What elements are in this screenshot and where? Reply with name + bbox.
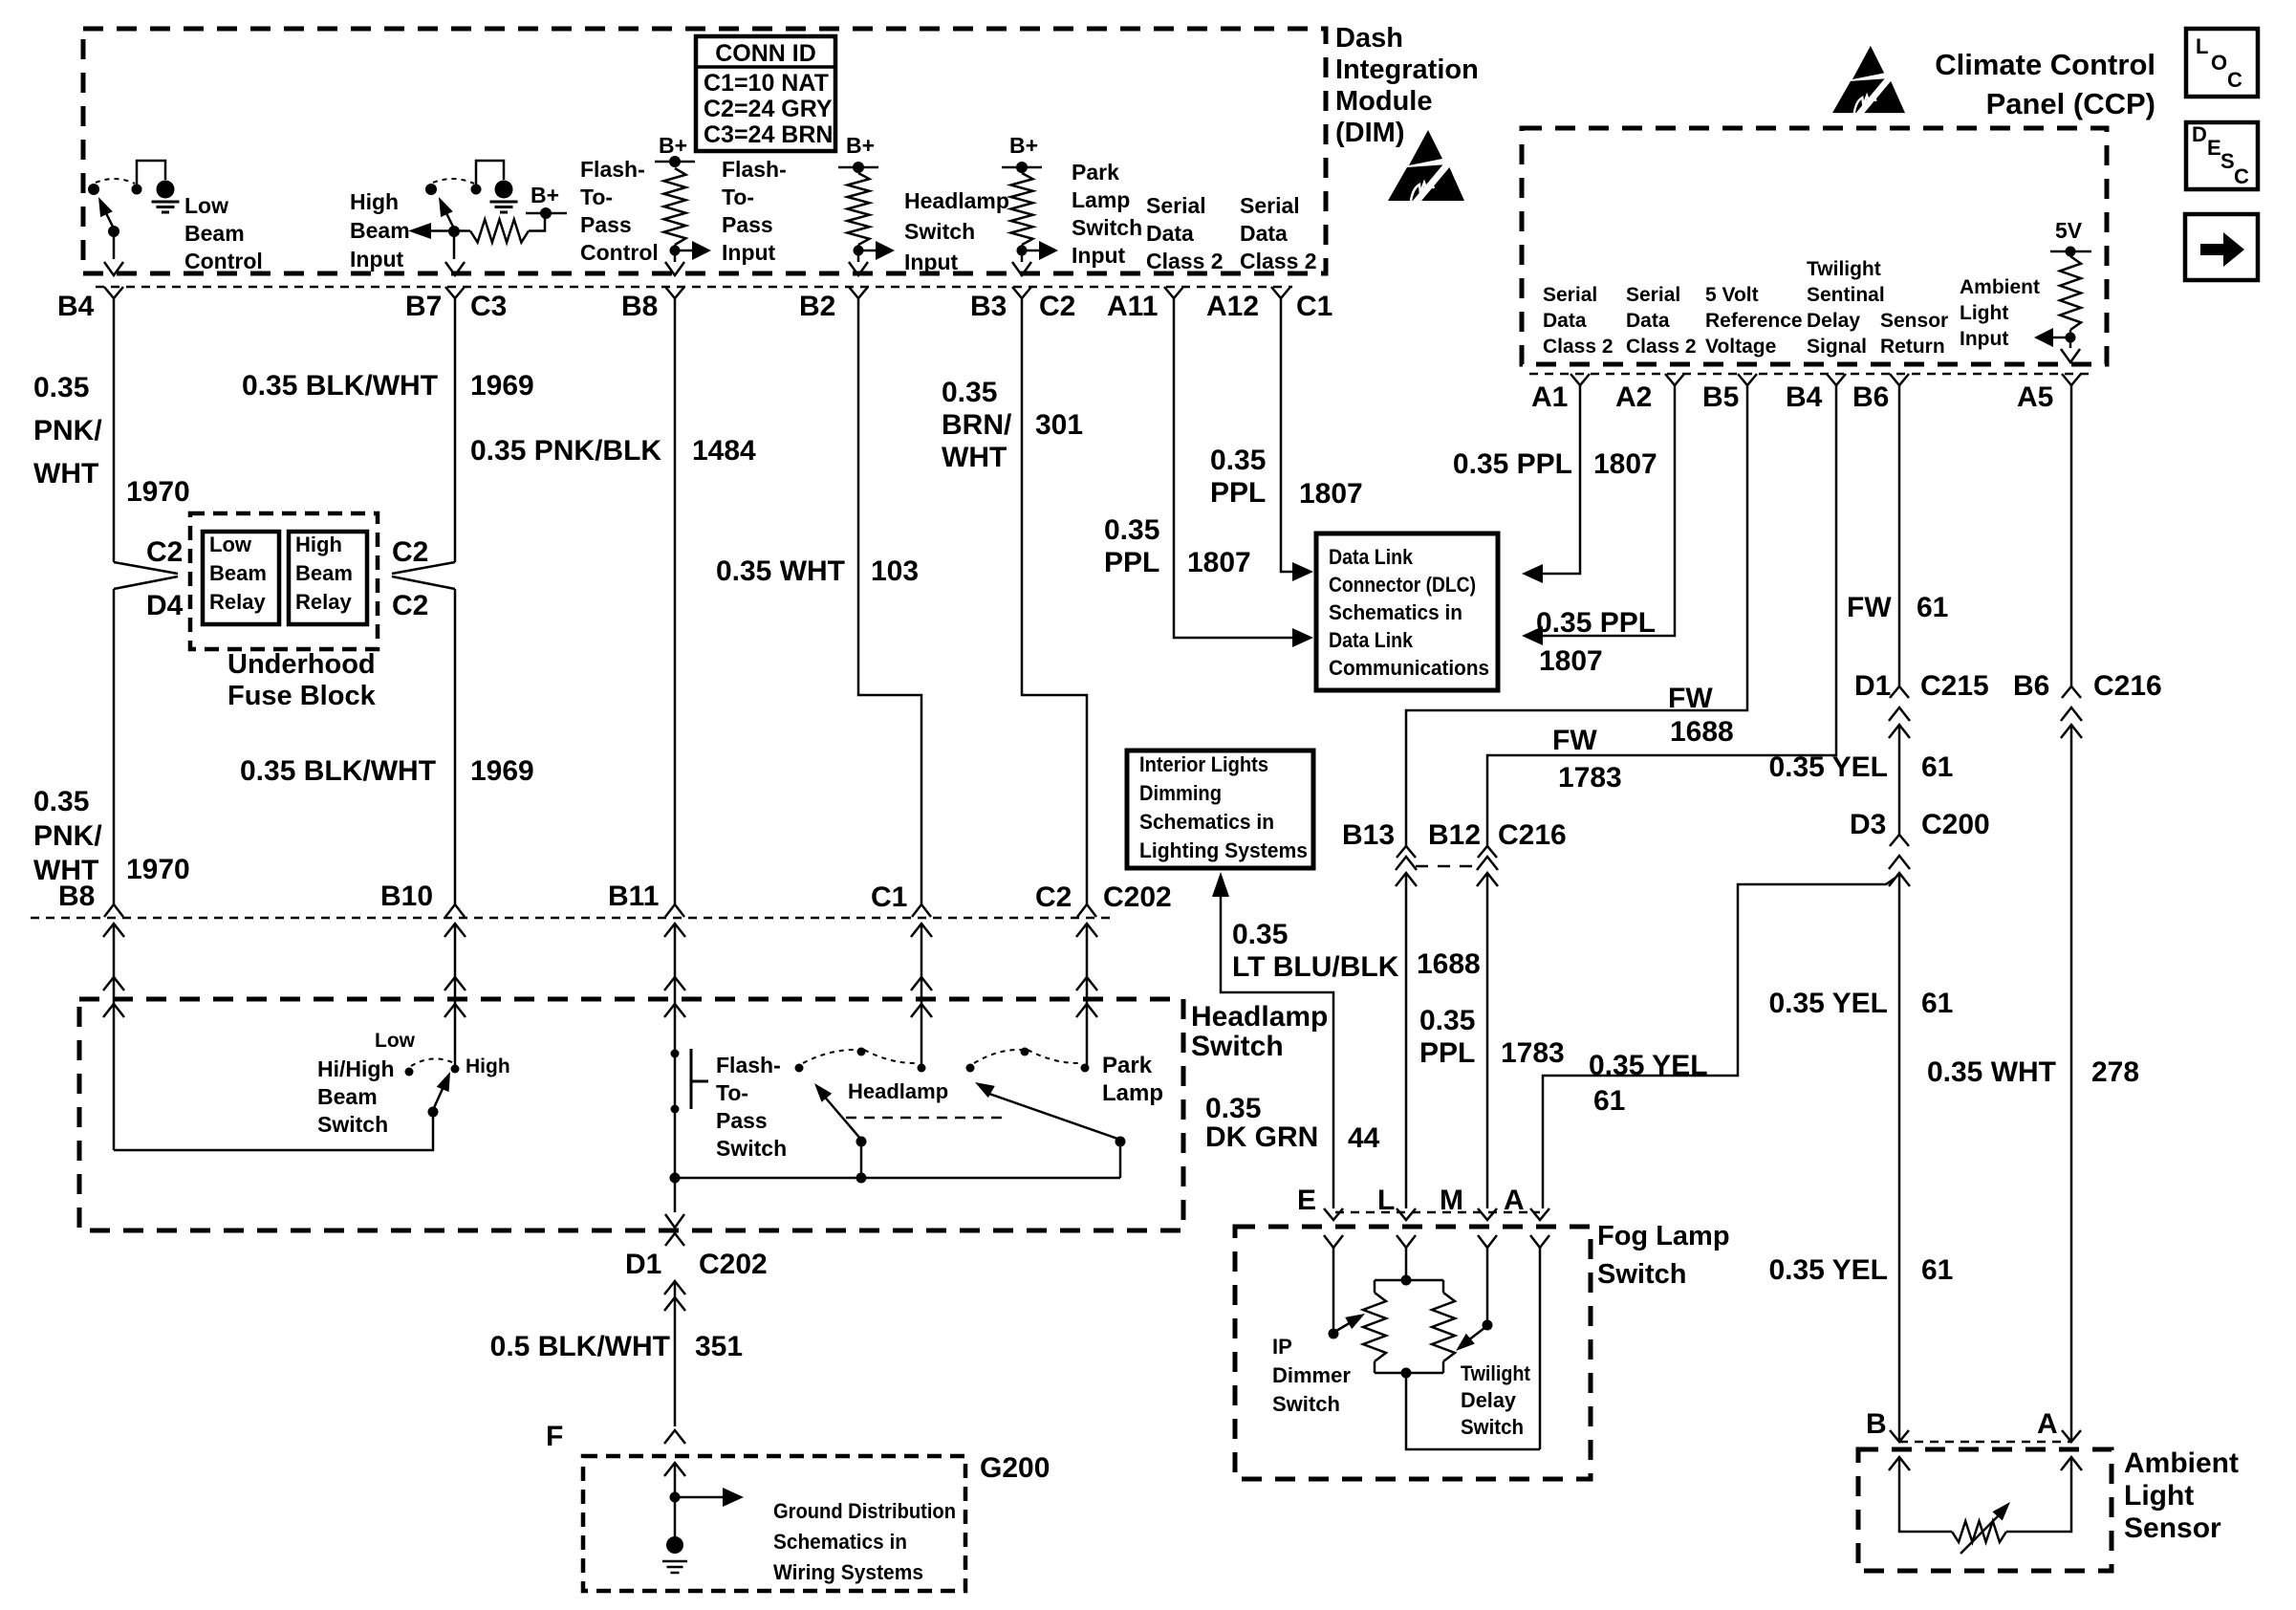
svg-text:Headlamp: Headlamp: [904, 188, 1009, 213]
svg-text:Beam: Beam: [184, 221, 245, 246]
svg-text:0.35 WHT: 0.35 WHT: [1927, 1056, 2056, 1088]
wire L into box: [1405, 1248, 1408, 1280]
high beam ground symbol: [490, 201, 518, 204]
wire fuse block to B10: [454, 589, 457, 904]
hi/high beam switch high contact: [451, 1065, 460, 1074]
svg-text:D3: D3: [1850, 809, 1886, 840]
svg-text:F: F: [546, 1421, 563, 1452]
ground wire inside G200: [664, 1463, 685, 1476]
headlamp switch input junction dot: [854, 246, 864, 256]
svg-text:Low: Low: [184, 193, 228, 218]
headlamp switch output wire to D1: [674, 1178, 677, 1212]
svg-text:BRN/: BRN/: [942, 409, 1012, 441]
svg-text:0.35: 0.35: [1205, 1093, 1261, 1124]
wire A12 to DLC: [1281, 298, 1292, 572]
svg-text:Switch: Switch: [904, 219, 975, 244]
svg-text:Beam: Beam: [295, 561, 353, 585]
hi/high beam switch arm: [433, 1082, 445, 1110]
underhood fuse block dashed box: [190, 513, 378, 649]
svg-text:Delay: Delay: [1461, 1388, 1517, 1412]
park lamp switch input signal arrow: [1022, 250, 1039, 252]
svg-text:B2: B2: [799, 291, 835, 322]
flash-to-pass control wire: [674, 245, 677, 262]
high beam switch left contact: [425, 184, 437, 195]
svg-text:0.35: 0.35: [1104, 514, 1159, 546]
svg-text:Schematics in: Schematics in: [773, 1530, 907, 1554]
ambient sensor pin A connector: [2062, 1430, 2081, 1442]
svg-text:Underhood: Underhood: [227, 649, 376, 680]
svg-text:PPL: PPL: [1419, 1037, 1475, 1069]
high beam switch right contact: [471, 185, 482, 195]
svg-text:G200: G200: [980, 1452, 1050, 1484]
headlamp rotary dashed arc: [803, 1050, 858, 1063]
dimmer network bottom bar: [1375, 1372, 1443, 1375]
svg-text:Dimming: Dimming: [1139, 781, 1222, 805]
park lamp rotary off contact: [966, 1064, 975, 1073]
svg-text:61: 61: [1921, 751, 1953, 783]
CCP pin B6 connector: [1890, 374, 1909, 385]
wire B7 to underhood fuse block: [454, 298, 457, 562]
svg-text:Light: Light: [2124, 1480, 2194, 1512]
svg-text:Beam: Beam: [209, 561, 267, 585]
wire B5 to headlamp switch B13 (FW 1688): [1406, 385, 1747, 846]
svg-text:1484: 1484: [692, 435, 756, 467]
svg-text:B8: B8: [58, 881, 95, 912]
flash-to-pass control pull-up resistor: [664, 168, 686, 245]
ground junction dot G200: [666, 1536, 683, 1554]
svg-text:Beam: Beam: [350, 218, 410, 243]
headlamp switch input B+ bar: [838, 166, 878, 169]
svg-text:Ambient: Ambient: [1960, 276, 2040, 298]
svg-text:Data: Data: [1543, 310, 1587, 332]
svg-text:WHT: WHT: [942, 442, 1007, 473]
svg-text:0.35 YEL: 0.35 YEL: [1768, 988, 1888, 1019]
body connector pin B11 symbol: [665, 904, 684, 917]
svg-text:Low: Low: [209, 533, 252, 556]
svg-text:E: E: [2207, 136, 2221, 160]
svg-text:B6: B6: [2013, 670, 2049, 702]
svg-text:High: High: [295, 533, 342, 556]
svg-text:Beam: Beam: [317, 1084, 378, 1109]
svg-text:Integration: Integration: [1335, 54, 1479, 85]
C216 connector line at headlamp switch: [1416, 865, 1478, 868]
svg-text:Data Link: Data Link: [1329, 628, 1414, 652]
DIM pin B8 connector: [665, 287, 684, 298]
ESD sensitivity symbol (CCP): [1832, 46, 1905, 116]
headlamp switch input arrow into DIM edge: [849, 262, 868, 275]
svg-text:1688: 1688: [1417, 948, 1481, 980]
high beam input left arrow: [431, 229, 454, 232]
headlamp switch input signal arrow: [858, 250, 876, 252]
svg-text:C202: C202: [699, 1249, 768, 1280]
svg-text:Class 2: Class 2: [1240, 249, 1317, 273]
Fog Lamp Switch dashed enclosure: [1235, 1227, 1591, 1479]
hi/high beam switch common bar: [114, 1114, 433, 1150]
svg-text:Fog Lamp: Fog Lamp: [1597, 1221, 1730, 1251]
headlamp rotary support: [860, 1142, 863, 1178]
svg-text:D1: D1: [1854, 670, 1891, 702]
svg-text:Input: Input: [722, 240, 776, 265]
hi/high beam switch pivot dot: [428, 1107, 439, 1118]
svg-text:L: L: [1377, 1185, 1395, 1216]
svg-text:0.35: 0.35: [1419, 1005, 1475, 1036]
park lamp switch input wire: [1021, 245, 1024, 262]
low beam control switch dashed arc: [96, 179, 135, 184]
ambient sensor connector line (fine dashed): [1899, 1441, 2071, 1444]
svg-text:Serial: Serial: [1626, 284, 1680, 306]
svg-text:A5: A5: [2017, 381, 2053, 413]
DIM pin B2 connector: [849, 287, 868, 298]
svg-text:Panel (CCP): Panel (CCP): [1986, 87, 2155, 120]
low beam control wire to pin B4: [113, 235, 116, 259]
svg-text:C2: C2: [392, 590, 428, 621]
wire A into box: [1539, 1248, 1542, 1449]
svg-text:To-: To-: [722, 185, 754, 209]
headlamp rotary off contact: [795, 1064, 804, 1073]
svg-text:B+: B+: [1009, 133, 1038, 158]
flash-to-pass switch top dot: [671, 1050, 680, 1058]
headlamp rotary on contact: [918, 1064, 926, 1073]
wire entry arrow into headlamp switch: [103, 977, 124, 990]
svg-text:B+: B+: [531, 183, 559, 207]
low beam control ground symbol: [152, 201, 180, 204]
high beam arrow into DIM edge: [445, 262, 465, 275]
svg-text:61: 61: [1917, 592, 1948, 623]
park lamp switch input arrow into DIM edge: [1012, 262, 1031, 275]
low beam control grounded contact bracket: [137, 161, 165, 186]
DIM pin A12 connector: [1271, 287, 1290, 298]
svg-text:C202: C202: [1103, 881, 1172, 913]
CCP pin A1 connector: [1570, 374, 1590, 385]
svg-text:1807: 1807: [1299, 478, 1363, 510]
ambient light input junction dot: [2066, 333, 2076, 343]
svg-text:Connector (DLC): Connector (DLC): [1329, 573, 1476, 597]
svg-text:Reference: Reference: [1705, 310, 1803, 332]
wire B4 to underhood fuse block: [113, 298, 116, 562]
svg-text:0.35 PPL: 0.35 PPL: [1536, 607, 1656, 639]
svg-text:Lamp: Lamp: [1072, 187, 1130, 212]
high beam ground terminal dot: [495, 181, 513, 199]
twilight wiper arm: [1468, 1328, 1484, 1340]
svg-text:PPL: PPL: [1104, 547, 1159, 578]
flash-to-pass switch lower dot: [671, 1105, 680, 1114]
wire C200 to ambient sensor B: [1898, 873, 1901, 1440]
splice branch to fog lamp A: [1543, 878, 1895, 1208]
wire A1 to DLC: [1541, 385, 1580, 574]
svg-text:A11: A11: [1107, 291, 1158, 322]
svg-text:C2: C2: [392, 536, 428, 568]
arrow legend box: [2185, 214, 2258, 280]
high beam switch dashed arc: [433, 179, 474, 184]
wire B12 to fog lamp switch M: [1486, 873, 1489, 1208]
ground wire D1 to G200: [674, 1281, 677, 1426]
svg-text:Ambient: Ambient: [2124, 1447, 2239, 1479]
headlamp switch input pull-up resistor: [848, 173, 870, 245]
svg-text:Switch: Switch: [716, 1136, 787, 1161]
DESC legend box: [2186, 122, 2258, 189]
svg-text:A: A: [2037, 1408, 2058, 1440]
svg-text:Data Link: Data Link: [1329, 545, 1414, 569]
low beam control arrow into DIM edge: [104, 262, 123, 275]
svg-text:0.35 BLK/WHT: 0.35 BLK/WHT: [242, 370, 438, 402]
DIM pin B3 connector: [1012, 287, 1031, 298]
park lamp rotary on contact: [1081, 1064, 1090, 1073]
C216 connector symbol: [2062, 686, 2081, 698]
svg-text:Park: Park: [1072, 160, 1119, 185]
svg-text:Module: Module: [1335, 86, 1433, 117]
svg-text:Schematics in: Schematics in: [1329, 600, 1462, 624]
Headlamp Switch dashed enclosure: [79, 999, 1183, 1230]
svg-text:B: B: [1866, 1408, 1887, 1440]
svg-text:Switch: Switch: [1272, 1392, 1340, 1416]
headlamp rotary junction dot: [856, 1173, 867, 1184]
CONN ID table box: [696, 36, 835, 151]
svg-text:Park: Park: [1102, 1053, 1153, 1078]
svg-text:Switch: Switch: [1191, 1031, 1284, 1062]
svg-text:Input: Input: [1072, 243, 1126, 268]
svg-text:1783: 1783: [1501, 1037, 1565, 1069]
svg-text:Dimmer: Dimmer: [1272, 1363, 1351, 1387]
svg-text:B6: B6: [1852, 381, 1889, 413]
headlamp switch common wire: [675, 1177, 1120, 1180]
svg-text:Headlamp: Headlamp: [848, 1079, 948, 1103]
svg-text:Signal: Signal: [1807, 336, 1867, 358]
svg-text:B10: B10: [380, 881, 433, 912]
headlamp rotary arm: [822, 1094, 861, 1140]
ambient light input arrow into CCP edge: [2061, 349, 2080, 362]
svg-text:High: High: [466, 1055, 510, 1077]
svg-text:C1: C1: [871, 881, 907, 913]
wire C1 to headlamp switch contact: [921, 924, 923, 1068]
ambient light input arrow: [2053, 337, 2070, 339]
ambient sensor variable arrow: [1960, 1513, 2001, 1554]
instrument panel connector line (fine dashed): [31, 917, 1111, 920]
Climate Control Panel dashed enclosure: [1522, 128, 2107, 364]
svg-text:Serial: Serial: [1146, 193, 1206, 218]
svg-text:351: 351: [695, 1331, 743, 1362]
wire B8 into switch: [113, 924, 116, 1150]
wire B4 to headlamp switch B12 (FW 1783): [1487, 385, 1836, 846]
svg-text:LT BLU/BLK: LT BLU/BLK: [1232, 951, 1399, 983]
svg-text:Pass: Pass: [722, 212, 773, 237]
svg-text:E: E: [1297, 1185, 1316, 1216]
ip dimmer wiper arm: [1336, 1321, 1353, 1331]
G200 ground symbol: [662, 1560, 687, 1563]
svg-text:PNK/: PNK/: [33, 415, 102, 446]
ip dimmer rheostat left rail: [1374, 1280, 1376, 1293]
svg-text:B11: B11: [608, 881, 659, 912]
svg-text:B7: B7: [405, 291, 442, 322]
wire E into box: [1332, 1248, 1335, 1329]
svg-text:C: C: [2227, 68, 2242, 92]
hi/high beam switch dashed arc: [411, 1058, 454, 1066]
svg-text:1807: 1807: [1539, 645, 1603, 677]
svg-text:1969: 1969: [470, 370, 534, 402]
C215 connector symbol: [1890, 686, 1909, 698]
svg-text:Fuse Block: Fuse Block: [227, 681, 377, 711]
svg-text:278: 278: [2091, 1056, 2139, 1088]
fog lamp switch pin L connector: [1397, 1208, 1416, 1220]
CCP pin B4 connector: [1827, 374, 1846, 385]
mechanical link dashed line: [846, 1117, 1004, 1120]
high beam grounded contact bracket: [476, 161, 504, 186]
svg-text:Input: Input: [904, 250, 959, 274]
DIM pin B4 connector: [104, 287, 123, 298]
svg-text:Pass: Pass: [580, 212, 632, 237]
svg-text:A12: A12: [1206, 291, 1259, 322]
ground connector F symbol: [664, 1430, 685, 1444]
ambient sensor wire A: [2006, 1457, 2071, 1532]
wire entry arrow into headlamp switch: [911, 977, 932, 990]
svg-text:Twilight: Twilight: [1461, 1361, 1531, 1385]
CCP connector line (fine dashed): [1529, 373, 2093, 376]
flash-to-pass junction dot: [670, 1173, 681, 1184]
svg-text:0.35 WHT: 0.35 WHT: [716, 555, 845, 587]
CONN ID title separator: [696, 65, 835, 69]
svg-text:1969: 1969: [470, 755, 534, 787]
wire M into box: [1486, 1248, 1489, 1323]
svg-text:0.35: 0.35: [1210, 445, 1266, 476]
svg-text:Sensor: Sensor: [2124, 1512, 2221, 1544]
flash-to-pass switch contact bar: [690, 1049, 693, 1109]
fog lamp switch pin A connector: [1530, 1208, 1549, 1220]
high beam resistor: [454, 229, 470, 232]
svg-text:0.35 YEL: 0.35 YEL: [1768, 1254, 1888, 1286]
wire B13 to fog lamp switch L: [1405, 873, 1408, 1208]
dimmer network top bar: [1375, 1279, 1443, 1282]
wire B3 to C202 connector: [1022, 298, 1087, 904]
high beam wire to pin B7: [453, 235, 456, 259]
svg-text:Relay: Relay: [209, 590, 266, 614]
svg-text:Sensor: Sensor: [1880, 310, 1948, 332]
svg-text:Light: Light: [1960, 302, 2008, 324]
svg-text:0.5 BLK/WHT: 0.5 BLK/WHT: [490, 1331, 670, 1362]
Dash Integration Module (DIM) dashed enclosure: [83, 29, 1326, 273]
wire B2 to C202 connector: [858, 298, 921, 904]
high beam switch pivot: [448, 226, 460, 237]
svg-text:5V: 5V: [2055, 218, 2083, 243]
svg-text:0.35: 0.35: [1232, 919, 1288, 950]
low beam control switch pivot: [108, 226, 119, 237]
svg-text:B+: B+: [846, 133, 875, 158]
Data Link Connector reference box: [1316, 533, 1498, 690]
twilight wiper dot: [1483, 1320, 1493, 1331]
svg-text:1688: 1688: [1670, 716, 1734, 748]
svg-text:PPL: PPL: [1210, 477, 1266, 509]
ambient sensor pin B entry arrow: [1889, 1457, 1910, 1470]
CCP pin B5 connector: [1738, 374, 1757, 385]
svg-text:0.35 PPL: 0.35 PPL: [1453, 448, 1572, 480]
svg-text:O: O: [2211, 51, 2227, 75]
svg-text:Flash-: Flash-: [580, 157, 645, 182]
svg-text:A2: A2: [1615, 381, 1652, 413]
svg-text:High: High: [350, 189, 399, 214]
wire entry arrow into headlamp switch: [1076, 977, 1097, 990]
svg-text:B3: B3: [970, 291, 1007, 322]
CCP pin A5 connector: [2062, 374, 2081, 385]
svg-text:Control: Control: [580, 240, 659, 265]
svg-text:Class 2: Class 2: [1626, 336, 1697, 358]
hi/high beam switch low contact: [405, 1068, 414, 1077]
wire A5 to C216: [2070, 385, 2073, 686]
svg-text:FW: FW: [1552, 725, 1597, 756]
fog lamp switch pin M connector: [1478, 1208, 1497, 1220]
svg-text:1807: 1807: [1187, 547, 1251, 578]
wire entry arrow into headlamp switch: [664, 977, 685, 990]
svg-text:Ground Distribution: Ground Distribution: [773, 1499, 956, 1523]
svg-text:Twilight: Twilight: [1807, 258, 1881, 280]
svg-text:S: S: [2220, 149, 2235, 173]
fuse block right inline connector C2/C2: [392, 562, 455, 574]
svg-text:Lamp: Lamp: [1102, 1080, 1163, 1106]
ground distribution arrow: [670, 1492, 681, 1503]
svg-text:Serial: Serial: [1543, 284, 1597, 306]
svg-text:Sentinal: Sentinal: [1807, 284, 1885, 306]
fog lamp switch pin E connector: [1324, 1208, 1343, 1220]
svg-text:FW: FW: [1668, 683, 1713, 714]
svg-text:Dash: Dash: [1335, 23, 1403, 54]
flash-to-pass control arrow into DIM edge: [665, 262, 684, 275]
flash-to-pass control junction dot: [670, 246, 681, 256]
CCP 5V supply bar: [2050, 250, 2091, 253]
headlamp rotary mid contact: [857, 1048, 866, 1056]
svg-text:B4: B4: [1786, 381, 1823, 413]
svg-text:Class 2: Class 2: [1146, 249, 1224, 273]
body connector pin B8 symbol: [104, 904, 123, 917]
park lamp rotary arm: [986, 1093, 1120, 1140]
svg-text:103: 103: [871, 555, 919, 587]
wire B11 into switch: [674, 924, 677, 1054]
svg-text:Input: Input: [1960, 328, 2008, 350]
arrow legend symbol: [2200, 232, 2244, 267]
svg-text:Switch: Switch: [1461, 1415, 1524, 1439]
svg-text:0.35: 0.35: [33, 786, 89, 817]
svg-text:Input: Input: [350, 247, 404, 272]
svg-text:Voltage: Voltage: [1705, 336, 1776, 358]
svg-text:D1: D1: [625, 1249, 661, 1280]
svg-text:1807: 1807: [1593, 448, 1657, 480]
svg-text:Relay: Relay: [295, 590, 352, 614]
svg-text:B8: B8: [621, 291, 658, 322]
headlamp switch input wire: [857, 245, 860, 262]
svg-text:Climate Control: Climate Control: [1935, 48, 2155, 81]
park lamp switch input junction dot: [1017, 246, 1028, 256]
svg-text:C2=24 GRY: C2=24 GRY: [704, 96, 833, 122]
svg-text:Serial: Serial: [1240, 193, 1300, 218]
low beam control switch right contact: [132, 185, 142, 195]
svg-text:A: A: [1504, 1185, 1525, 1216]
flash-to-pass switch wire: [674, 1054, 677, 1178]
svg-text:M: M: [1440, 1185, 1463, 1216]
svg-text:Hi/High: Hi/High: [317, 1056, 395, 1081]
high beam relay box: [289, 532, 367, 624]
svg-text:C2: C2: [146, 536, 183, 568]
high beam B+ drop wire: [529, 213, 545, 231]
wire B6 to C215: [1898, 385, 1901, 686]
wire A11 to DLC: [1174, 298, 1292, 638]
low beam relay box: [203, 532, 279, 624]
svg-text:61: 61: [1593, 1085, 1625, 1117]
svg-text:1970: 1970: [126, 854, 190, 885]
svg-text:0.35 YEL: 0.35 YEL: [1768, 751, 1888, 783]
svg-text:Switch: Switch: [317, 1112, 388, 1137]
ambient sensor pin B connector: [1890, 1430, 1909, 1442]
svg-text:Switch: Switch: [1072, 215, 1142, 240]
wire B10 into switch: [454, 924, 457, 1069]
svg-text:Communications: Communications: [1329, 656, 1489, 680]
svg-text:FW: FW: [1847, 592, 1892, 623]
svg-text:B5: B5: [1702, 381, 1739, 413]
